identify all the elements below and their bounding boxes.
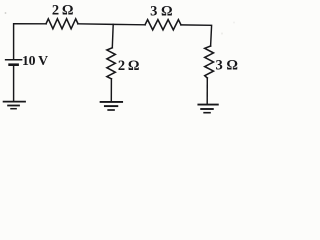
resistor R4 3 ohm (right, vertical zigzag) [205, 46, 214, 78]
wire: middle lower segment (R2 bottom to middle ground) [110, 79, 112, 101]
wire: left rail (top-left corner, from battery + up and right to R1) [14, 24, 46, 60]
wire: top middle segment (R1 right lead to R3 left lead, through node A) [78, 24, 145, 25]
ground (middle) [101, 102, 123, 110]
resistor R2 2 ohm (middle, vertical zigzag) [107, 48, 115, 79]
svg-text:2 Ω: 2 Ω [118, 58, 139, 74]
wire: top right corner (R3 right lead down to R4) [181, 25, 212, 46]
svg-text:2 Ω: 2 Ω [52, 2, 73, 18]
wire: right lower segment (R4 bottom to right ground) [206, 78, 208, 104]
svg-text:10 V: 10 V [22, 53, 48, 68]
voltage source V1, battery 10 V (left branch) [6, 60, 22, 65]
wire: left lower segment (battery - terminal to left ground) [13, 66, 15, 101]
resistor R3 3 ohm (top-right, horizontal zigzag) [145, 20, 181, 30]
svg-text:3 Ω: 3 Ω [150, 3, 173, 19]
resistor R1 2 ohm (top-left, horizontal zigzag) [46, 19, 78, 29]
node A: junction of R1, R3 and R2 branch [111, 24, 114, 47]
svg-text:3 Ω: 3 Ω [216, 57, 239, 73]
ground (left) [4, 102, 25, 109]
ground (right) [198, 105, 217, 113]
